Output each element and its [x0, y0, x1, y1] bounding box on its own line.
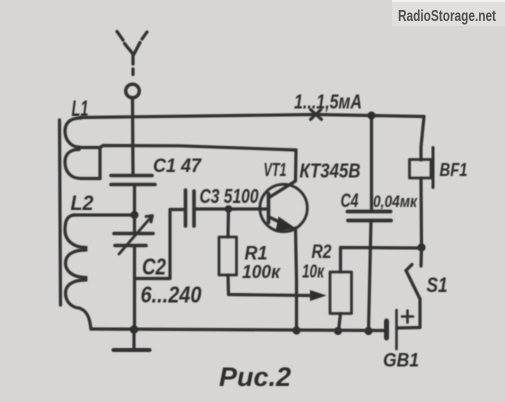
antenna Y symbol [117, 32, 147, 75]
svg-text:R2: R2 [312, 242, 332, 263]
battery GB1 short plate [384, 321, 389, 338]
wire C4 top [370, 116, 373, 212]
antenna terminal circle [126, 84, 140, 98]
wire L1 tap to collector [78, 146, 296, 151]
wire C4 bottom to rail [369, 221, 372, 332]
svg-text:S1: S1 [427, 274, 448, 297]
node tank junction [131, 211, 139, 219]
wire R2 top [341, 248, 422, 273]
svg-text:Рис.2: Рис.2 [219, 362, 291, 392]
capacitor C1 plates [111, 176, 155, 185]
ferrite core line [60, 120, 61, 305]
node C2/ground rail junction [130, 325, 139, 334]
svg-text:С3 5100: С3 5100 [200, 186, 259, 208]
node base/R1 junction [225, 205, 233, 213]
potentiometer R2 body [330, 272, 352, 314]
svg-text:L2: L2 [71, 192, 94, 215]
wire R1 top [226, 209, 230, 237]
node emitter/rail [292, 326, 300, 334]
svg-text:VT1: VT1 [264, 160, 287, 180]
switch S1 [397, 248, 422, 329]
node R2/rail [334, 327, 342, 335]
top supply wire from L1 to right corner [80, 115, 424, 118]
capacitor C3 plates [186, 190, 195, 226]
capacitor C4 plates [348, 212, 392, 221]
battery GB1 long plate [395, 310, 398, 349]
svg-text:BF1: BF1 [440, 160, 468, 180]
svg-text:КТ345В: КТ345В [300, 161, 361, 183]
wire antenna down to C1 [131, 98, 135, 176]
inductor L2 [65, 215, 91, 329]
watermark box [392, 0, 505, 26]
wire R2 bottom [339, 314, 341, 332]
wire L2 top to junction [73, 213, 135, 216]
svg-text:0,04мк: 0,04мк [373, 192, 418, 211]
VT1 collector [269, 150, 296, 198]
wiper arrowhead [310, 290, 327, 301]
wire R1 bottom to wiper [228, 275, 310, 296]
variable capacitor C2 plates [114, 234, 153, 246]
headphone BF1 body [410, 160, 432, 179]
wire corner down to BF1 [421, 117, 424, 161]
resistor R1 [219, 237, 237, 275]
VT1 emitter with arrow [269, 217, 297, 331]
svg-text:С1 47: С1 47 [153, 156, 202, 177]
svg-text:RadioStorage.net: RadioStorage.net [398, 8, 496, 25]
svg-text:GB1: GB1 [383, 351, 419, 372]
node top junction [368, 112, 376, 120]
wire C1 to tank junction [133, 185, 136, 216]
svg-text:1...1,5мА: 1...1,5мА [294, 92, 362, 114]
node BF1/R2/S1 junction [417, 243, 425, 251]
svg-text:6...240: 6...240 [141, 282, 202, 308]
C2 arrow [119, 216, 153, 255]
ground symbol [114, 330, 150, 351]
wire BF1 bottom [419, 178, 423, 246]
svg-text:C2: C2 [142, 254, 166, 280]
bottom ground rail [91, 329, 385, 331]
wire hook C2 to C3 [135, 210, 185, 279]
node C4/rail [364, 327, 372, 335]
wire C2 axis bottom to rail [133, 246, 136, 330]
svg-text:L1: L1 [72, 96, 89, 121]
svg-text:C4: C4 [341, 191, 359, 212]
battery plus sign [402, 311, 413, 323]
wire C2 axis top [133, 215, 136, 234]
transistor VT1 circle [260, 184, 307, 231]
svg-text:10к: 10к [302, 262, 325, 282]
BF1 membrane line [432, 148, 435, 188]
wire C3 to base [194, 207, 267, 210]
inductor L1 [65, 118, 100, 179]
svg-text:100к: 100к [242, 262, 281, 282]
X break mark [311, 110, 322, 120]
VT1 base bar [267, 194, 271, 223]
